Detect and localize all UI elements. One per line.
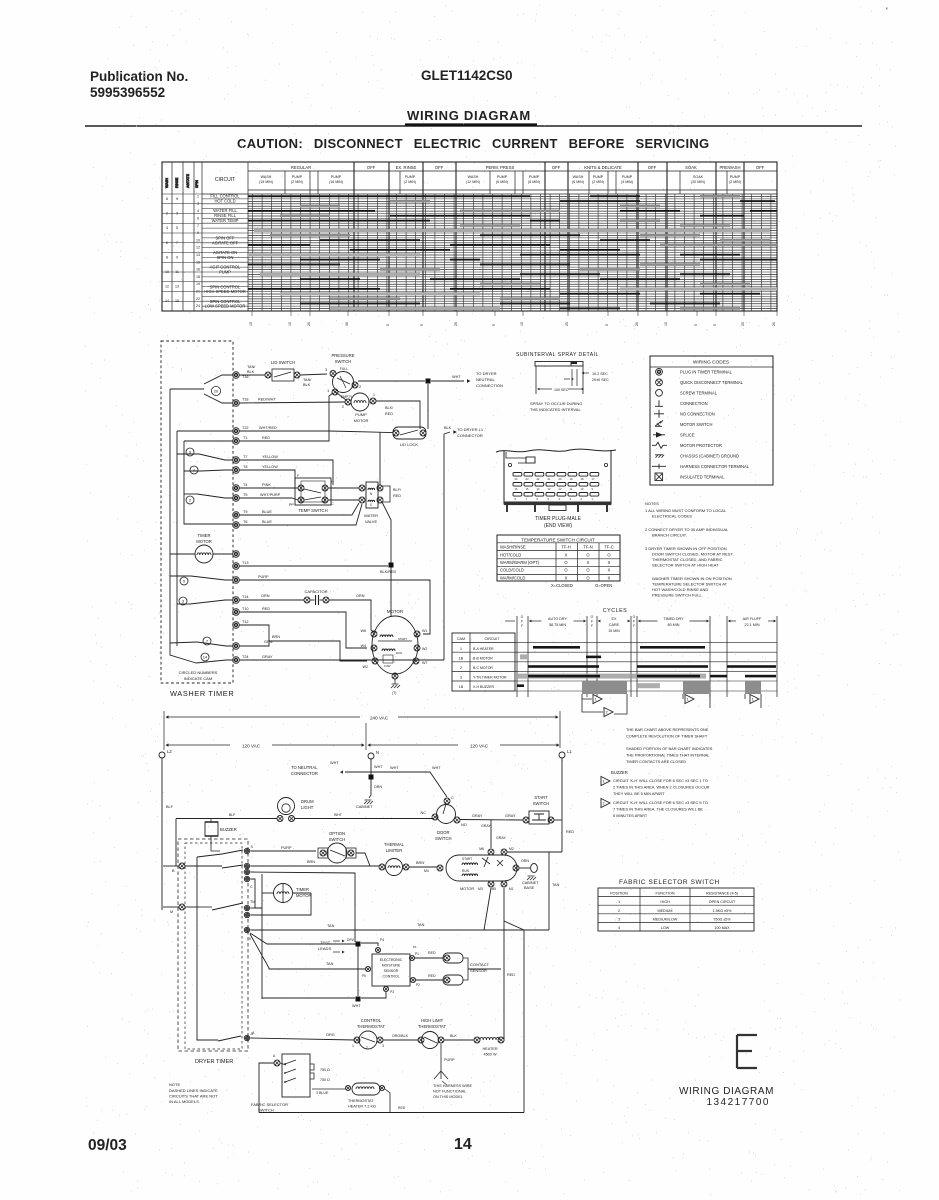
washer timer terminal T22 [233, 428, 240, 435]
svg-text:W4: W4 [361, 644, 366, 648]
svg-text:W7: W7 [422, 661, 427, 665]
svg-text:OFF: OFF [756, 165, 765, 170]
svg-text:TEMPERATURE SELECTOR SWITCH AT: TEMPERATURE SELECTOR SWITCH AT [652, 582, 728, 587]
pump motor [351, 393, 369, 411]
timing chart sub-column header dividers [284, 171, 286, 194]
svg-text:2: 2 [359, 384, 362, 389]
svg-text:4: 4 [197, 209, 199, 213]
svg-text:COLD/COLD: COLD/COLD [500, 568, 524, 573]
svg-text:3: 3 [382, 1044, 384, 1048]
wire splice to lid lock [427, 384, 429, 429]
internal timer wire [197, 857, 218, 1040]
svg-text:WIRING DIAGRAM: WIRING DIAGRAM [679, 1086, 774, 1097]
svg-text:16: 16 [196, 268, 200, 272]
svg-text:13: 13 [196, 253, 200, 257]
harness stub purp [434, 1044, 441, 1079]
wire thermal limiter to motor [409, 866, 437, 868]
svg-text:WHT: WHT [390, 766, 399, 770]
svg-text:CIRCUITS THAT ARE NOT: CIRCUITS THAT ARE NOT [169, 1094, 218, 1099]
svg-text:2: 2 [618, 909, 620, 913]
legend motor switch [655, 420, 663, 426]
wire pressure switch to neutral splice [358, 380, 425, 382]
svg-text:P4: P4 [380, 938, 384, 942]
svg-text:19: 19 [196, 282, 200, 286]
wire T4 to temp switch [239, 487, 298, 489]
washer timer terminal T9 [233, 512, 240, 519]
svg-text:PUMP: PUMP [497, 175, 508, 179]
svg-text:(2 MIN): (2 MIN) [404, 180, 416, 184]
wire T7 to temp switch H [239, 460, 333, 485]
svg-text:2: 2 [189, 497, 192, 502]
svg-text:YELLOW: YELLOW [262, 455, 278, 459]
svg-text:CONNECTION: CONNECTION [680, 401, 708, 406]
svg-text:START: START [534, 795, 548, 800]
lid lock [393, 427, 426, 439]
svg-text:6: 6 [197, 216, 199, 220]
svg-text:WARM/WARM (OPT): WARM/WARM (OPT) [500, 560, 540, 565]
cabinet base ground [519, 867, 530, 869]
svg-text:LOW: LOW [661, 926, 670, 930]
svg-text:2: 2 [603, 801, 606, 806]
svg-text:AIR FLUFF: AIR FLUFF [743, 617, 762, 621]
svg-text:BLF/: BLF/ [393, 488, 402, 492]
svg-text:25: 25 [565, 322, 569, 326]
svg-text:': ' [886, 6, 888, 16]
svg-text:23: 23 [526, 477, 529, 481]
svg-text:750 Ω: 750 Ω [320, 1068, 330, 1072]
svg-text:(2 MIN): (2 MIN) [592, 180, 604, 184]
svg-text:P2: P2 [416, 983, 420, 987]
legend splice [653, 434, 665, 436]
wire M1 down [503, 888, 505, 1041]
svg-text:7: 7 [206, 638, 209, 643]
svg-text:INDICATE CAM: INDICATE CAM [184, 676, 212, 681]
wire T19 purple to motor W1 [239, 580, 430, 634]
svg-text:PUMP: PUMP [355, 412, 367, 417]
pressure switch [333, 372, 354, 393]
cam switch 3 [179, 597, 187, 605]
dryer timer switch arms [222, 850, 243, 854]
svg-text:TAN: TAN [327, 924, 335, 928]
svg-text:M6: M6 [479, 847, 484, 851]
svg-text:T7: T7 [243, 455, 247, 459]
washer timer terminal T5 [233, 495, 240, 502]
svg-text:2: 2 [366, 1046, 368, 1050]
svg-text:RINSE: RINSE [175, 177, 179, 188]
svg-text:3: 3 [570, 497, 572, 501]
svg-text:S: S [251, 845, 254, 849]
svg-text:THEY WILL BE 5 MIN APART: THEY WILL BE 5 MIN APART [613, 791, 665, 796]
svg-text:M: M [170, 910, 173, 914]
svg-text:VALVE: VALVE [365, 519, 378, 524]
svg-text:W2: W2 [363, 665, 368, 669]
wire capacitor to motor W6 [329, 600, 374, 632]
svg-text:CONTROL: CONTROL [361, 1018, 382, 1023]
svg-text:22.1 MIN: 22.1 MIN [745, 623, 760, 627]
svg-text:FABRIC SELECTOR SWITCH: FABRIC SELECTOR SWITCH [619, 879, 720, 886]
svg-text:F: F [633, 620, 635, 624]
legend insulated terminal [655, 473, 663, 481]
svg-text:8: 8 [166, 255, 168, 259]
wire pump to lid lock [376, 401, 420, 429]
svg-text:N: N [370, 492, 373, 496]
terminal L2 [159, 752, 165, 758]
bottom rail [259, 1112, 524, 1114]
svg-text:RED: RED [507, 973, 515, 977]
svg-text:SELECTOR SWITCH AT HIGH HEAT: SELECTOR SWITCH AT HIGH HEAT [652, 563, 719, 568]
svg-text:WASHER TIMER SHOWN IN ON POSIT: WASHER TIMER SHOWN IN ON POSITION [652, 576, 732, 581]
svg-text:PURP: PURP [258, 575, 269, 579]
svg-text:SOAK: SOAK [685, 165, 697, 170]
BLF terminals into timer [179, 863, 185, 869]
wire to dryer L1 connector [443, 434, 445, 660]
svg-text:14: 14 [203, 654, 208, 659]
washer timer terminal T10 [233, 609, 240, 616]
splice WHT [356, 997, 361, 1002]
svg-text:120 VAC: 120 VAC [470, 744, 489, 749]
cycles cam circuit table [452, 633, 515, 691]
svg-text:CAUTION: DISCONNECT ELECTRIC C: CAUTION: DISCONNECT ELECTRIC CURRENT BEF… [237, 136, 709, 151]
svg-text:DASHED LINES INDICATE: DASHED LINES INDICATE [169, 1088, 218, 1093]
svg-text:CIRCLED NUMBERS: CIRCLED NUMBERS [179, 670, 218, 675]
svg-text:SWITCH: SWITCH [258, 1108, 274, 1113]
svg-text:MEDIUM: MEDIUM [658, 909, 673, 913]
circuit row labels [204, 194, 246, 309]
svg-text:SOAK: SOAK [693, 175, 704, 179]
washer timer motor [195, 545, 213, 563]
cycles section headers [505, 620, 515, 622]
svg-text:2: 2 [581, 497, 583, 501]
svg-text:BLF: BLF [229, 813, 235, 817]
svg-text:7: 7 [197, 224, 199, 228]
svg-text:30: 30 [345, 322, 349, 326]
wire K to sensor P5 [250, 934, 365, 969]
fabric selector switch [282, 1054, 310, 1097]
svg-text:DRUM: DRUM [301, 799, 314, 804]
svg-text:NEUTRAL: NEUTRAL [476, 377, 495, 382]
svg-text:12: 12 [196, 246, 200, 250]
timing chart row lines [202, 199, 777, 306]
svg-text:BLK/RED: BLK/RED [380, 570, 397, 574]
washer timer terminal Y [233, 643, 240, 650]
svg-text:TO DRYER: TO DRYER [476, 371, 497, 376]
svg-text:ORN: ORN [374, 785, 382, 789]
legend quick disconnect terminal [656, 379, 663, 386]
svg-text:WIRING CODES: WIRING CODES [693, 360, 729, 366]
svg-text:CIRCUIT 'K-H' WILL CLOSE FOR 6: CIRCUIT 'K-H' WILL CLOSE FOR 6 SEC ±3 SE… [613, 800, 708, 805]
svg-text:SPLICE: SPLICE [680, 432, 695, 437]
legend screw terminal [656, 389, 663, 396]
timing chart fine vertical grid [253, 194, 771, 311]
svg-text:T22: T22 [242, 426, 249, 430]
washer timer terminal T8 [233, 467, 240, 474]
svg-text:ON THIS MODEL: ON THIS MODEL [433, 1095, 463, 1099]
svg-text:WATER: WATER [364, 513, 378, 518]
svg-text:22: 22 [537, 477, 540, 481]
svg-text:3: 3 [325, 367, 328, 372]
svg-text:20±0 SEC: 20±0 SEC [592, 378, 609, 382]
svg-text:THERMOSTAT CLOSED, AND FABRIC: THERMOSTAT CLOSED, AND FABRIC [652, 557, 723, 562]
temperature switch circuit table [497, 535, 620, 581]
svg-text:SHADED PORTION OF BAR CHART IN: SHADED PORTION OF BAR CHART INDICATES [626, 746, 713, 751]
svg-text:GRAY: GRAY [262, 655, 273, 659]
svg-text:13: 13 [175, 285, 179, 289]
svg-text:LEADS: LEADS [318, 946, 331, 951]
wire splice to door switch [371, 772, 447, 797]
svg-text:T9: T9 [243, 510, 247, 514]
svg-text:SPRAY TO OCCUR DURING: SPRAY TO OCCUR DURING [530, 401, 582, 406]
svg-text:HOT COLD: HOT COLD [214, 198, 235, 203]
svg-text:Y-TN TIMER MOTOR: Y-TN TIMER MOTOR [473, 676, 507, 680]
svg-text:B-C MOTOR: B-C MOTOR [473, 666, 493, 670]
svg-text:5: 5 [183, 578, 186, 583]
svg-text:TIMER: TIMER [296, 887, 309, 892]
svg-text:CONNECTOR: CONNECTOR [291, 771, 318, 776]
svg-text:BASE: BASE [524, 886, 535, 890]
svg-text:134217700: 134217700 [706, 1097, 770, 1108]
timing chart left column dividers [171, 162, 173, 311]
svg-text:TAN: TAN [326, 962, 334, 966]
wire T24 gray to motor W7 [239, 659, 444, 661]
svg-text:7 TIMES IN THIS AREA. THE CLO: 7 TIMES IN THIS AREA. THE CLOSURES WILL … [613, 807, 703, 812]
drum light [278, 798, 295, 815]
svg-text:HEATER 7.2 KΩ: HEATER 7.2 KΩ [348, 1105, 376, 1109]
cam switch 4 [190, 466, 198, 474]
svg-text:DP#: DP# [347, 938, 354, 942]
svg-text:F: F [521, 620, 523, 624]
svg-text:CIRCUIT 'K-H' WILL CLOSE FOR 6: CIRCUIT 'K-H' WILL CLOSE FOR 6 SEC ±3 SE… [613, 778, 708, 783]
timer plug male end view [496, 449, 616, 452]
svg-text:3: 3 [197, 202, 199, 206]
svg-text:8: 8 [166, 197, 168, 201]
svg-text:A: A [252, 1031, 255, 1035]
wire T6 blue [239, 504, 362, 525]
svg-text:O: O [586, 575, 589, 580]
svg-text:O: O [591, 615, 594, 619]
svg-text:T14: T14 [242, 595, 249, 599]
svg-text:O=OPEN: O=OPEN [595, 583, 612, 588]
svg-text:PUMP: PUMP [622, 175, 633, 179]
svg-text:C: C [250, 885, 253, 889]
svg-text:MOTOR: MOTOR [354, 418, 369, 423]
splice neutral [426, 379, 431, 384]
svg-text:SENSOR: SENSOR [470, 968, 487, 973]
water valve [366, 482, 378, 508]
svg-text:BRANCH CIRCUIT.: BRANCH CIRCUIT. [652, 533, 687, 538]
dryer timer motor [274, 884, 293, 903]
svg-text:MOTOR: MOTOR [460, 887, 474, 891]
wire M6 up [490, 820, 492, 849]
svg-text:GLET1142CS0: GLET1142CS0 [421, 68, 513, 83]
svg-text:1B: 1B [459, 656, 464, 660]
svg-text:5: 5 [605, 324, 609, 326]
svg-text:RED: RED [428, 951, 436, 955]
svg-text:8: 8 [515, 497, 517, 501]
svg-text:T12: T12 [242, 620, 249, 624]
svg-text:F: F [591, 624, 593, 628]
svg-text:LID LOCK: LID LOCK [400, 442, 419, 447]
svg-text:TIMED DRY: TIMED DRY [663, 617, 684, 621]
wire T22 to lid lock [239, 431, 393, 433]
svg-text:YELLOW: YELLOW [262, 465, 278, 469]
svg-text:5 MINUTES APART: 5 MINUTES APART [613, 813, 648, 818]
svg-text:X: X [587, 560, 590, 565]
svg-text:MOTOR: MOTOR [387, 609, 403, 614]
legend motor protector [652, 442, 667, 448]
svg-text:ORG/BLK: ORG/BLK [392, 1034, 409, 1038]
splice blk/red [389, 563, 394, 568]
svg-text:W6: W6 [361, 629, 366, 633]
svg-text:CONTROL: CONTROL [382, 975, 399, 979]
svg-text:WHT: WHT [330, 761, 339, 765]
svg-text:WASH: WASH [261, 175, 272, 179]
svg-text:9: 9 [197, 231, 199, 235]
svg-text:1: 1 [592, 497, 594, 501]
svg-text:WATER TEMP: WATER TEMP [212, 218, 239, 223]
svg-text:5: 5 [548, 497, 550, 501]
svg-text:THE PROPORTIONAL TIMES THAT IN: THE PROPORTIONAL TIMES THAT INTERNAL [626, 753, 710, 758]
svg-text:O: O [607, 552, 610, 557]
svg-text:L2: L2 [167, 749, 172, 754]
svg-text:6: 6 [537, 497, 539, 501]
svg-text:WARM/COLD: WARM/COLD [500, 575, 525, 580]
svg-text:3: 3 [618, 917, 620, 921]
svg-text:20: 20 [741, 322, 745, 326]
svg-text:9: 9 [176, 255, 178, 259]
washer timer terminal T1 [233, 438, 240, 445]
wire fabric selector to thermostat heater [312, 1088, 345, 1090]
svg-text:RED: RED [428, 974, 436, 978]
svg-text:OFF: OFF [435, 165, 444, 170]
svg-text:CONTACT: CONTACT [470, 962, 490, 967]
svg-text:NC: NC [421, 811, 427, 815]
wire T13 to splice [239, 565, 388, 567]
svg-text:O: O [633, 615, 636, 619]
svg-text:10: 10 [288, 322, 292, 326]
svg-text:C: C [370, 503, 373, 507]
svg-text:C: C [451, 796, 454, 800]
svg-text:5: 5 [420, 324, 424, 326]
svg-text:100 MAX: 100 MAX [714, 926, 730, 930]
svg-text:21: 21 [196, 290, 200, 294]
svg-text:2: 2 [342, 405, 344, 409]
svg-text:1 ALL WIRING MUST CONFORM TO: 1 ALL WIRING MUST CONFORM TO LOCAL [645, 508, 727, 513]
svg-text:22: 22 [196, 297, 200, 301]
svg-text:OFF: OFF [552, 165, 561, 170]
svg-text:WHT: WHT [334, 813, 342, 817]
wire to high limit thermostat [383, 1039, 419, 1041]
svg-text:TIMER CONTACTS ARE CLOSED: TIMER CONTACTS ARE CLOSED [626, 759, 686, 764]
washer timer terminal T16 [233, 372, 240, 379]
svg-text:CHASSIS (CABINET) GROUND: CHASSIS (CABINET) GROUND [680, 453, 739, 458]
svg-text:B: B [172, 869, 175, 873]
svg-text:TAN/: TAN/ [303, 378, 312, 382]
temperature switch [295, 478, 331, 505]
svg-text:15: 15 [526, 487, 529, 491]
svg-text:TAN: TAN [552, 883, 560, 887]
svg-text:ORN: ORN [356, 594, 365, 598]
svg-text:5995396552: 5995396552 [90, 85, 165, 100]
svg-text:1: 1 [327, 388, 330, 393]
svg-text:2: 2 [166, 212, 168, 216]
svg-text:HEATER: HEATER [482, 1047, 497, 1051]
svg-text:14: 14 [454, 1136, 472, 1153]
svg-text:SWITCH: SWITCH [435, 836, 452, 841]
motor ground [392, 673, 398, 679]
wire pressure switch empty to pump [333, 390, 346, 400]
left bus wires [170, 388, 204, 390]
svg-text:T5: T5 [243, 493, 247, 497]
svg-text:21: 21 [548, 477, 551, 481]
svg-text:TIMER: TIMER [197, 533, 210, 538]
svg-text:QUICK DISCONNECT TERMINAL: QUICK DISCONNECT TERMINAL [680, 380, 744, 385]
splice DP [356, 942, 361, 947]
cam switch 9 [186, 448, 194, 456]
svg-text:TM: TM [250, 900, 255, 904]
svg-text:DOOR: DOOR [437, 830, 450, 835]
left pair-row lines [162, 203, 202, 205]
dryer timer dashed box [178, 839, 248, 1051]
svg-text:T6: T6 [243, 520, 247, 524]
svg-text:240 VAC: 240 VAC [370, 716, 389, 721]
svg-text:SPIN: SPIN [195, 180, 199, 188]
svg-text:750 Ω: 750 Ω [320, 1078, 330, 1082]
sub-column header labels [259, 175, 741, 184]
timing chart header band lines [248, 170, 777, 172]
svg-text:O: O [564, 568, 567, 573]
svg-text:(6 MIN): (6 MIN) [496, 180, 508, 184]
240 VAC dimension line [167, 716, 360, 718]
wire terminal to DP splice [250, 872, 355, 942]
svg-text:2: 2 [606, 710, 609, 715]
washer timer dashed box [161, 341, 233, 683]
svg-text:PUMP: PUMP [529, 175, 540, 179]
svg-text:BRN: BRN [272, 635, 280, 639]
svg-text:RED: RED [393, 494, 401, 498]
svg-text:ORG: ORG [326, 1033, 335, 1037]
washer timer terminal T24 [233, 657, 240, 664]
buzzer note 1 [601, 777, 610, 786]
washer timer terminal T14 [233, 597, 240, 604]
legend chassis ground [655, 455, 664, 458]
svg-text:1: 1 [603, 779, 606, 784]
svg-text:14: 14 [537, 487, 540, 491]
svg-text:A: A [273, 1054, 276, 1058]
svg-text:17: 17 [592, 477, 595, 481]
svg-text:RED: RED [262, 607, 270, 611]
svg-text:CIRCUIT: CIRCUIT [215, 177, 235, 183]
svg-text:15: 15 [249, 322, 253, 326]
wire T5 to temp switch PP [239, 498, 298, 500]
wire lid-lock row down to valve [379, 432, 381, 485]
svg-text:11: 11 [175, 270, 179, 274]
svg-text:RED: RED [385, 412, 393, 416]
svg-text:NOT FUNCTIONAL: NOT FUNCTIONAL [433, 1090, 466, 1094]
svg-text:X-H BUZZER: X-H BUZZER [473, 685, 494, 689]
capacitor [239, 599, 304, 601]
svg-text:INSULATED TERMINAL: INSULATED TERMINAL [680, 474, 725, 479]
svg-text:THE BAR CHART ABOVE REPRESENTS: THE BAR CHART ABOVE REPRESENTS ONE [626, 727, 709, 732]
svg-text:LIGHT: LIGHT [301, 805, 314, 810]
svg-text:SWITCH: SWITCH [329, 837, 346, 842]
wire T12 loop to Y [239, 625, 269, 646]
svg-text:PUMP: PUMP [292, 175, 303, 179]
svg-text:CAM: CAM [457, 637, 465, 641]
svg-text:ORN: ORN [261, 594, 270, 598]
washer timer terminal T19 [233, 577, 240, 584]
svg-text:(8 MIN): (8 MIN) [528, 180, 540, 184]
svg-text:W1: W1 [422, 629, 427, 633]
